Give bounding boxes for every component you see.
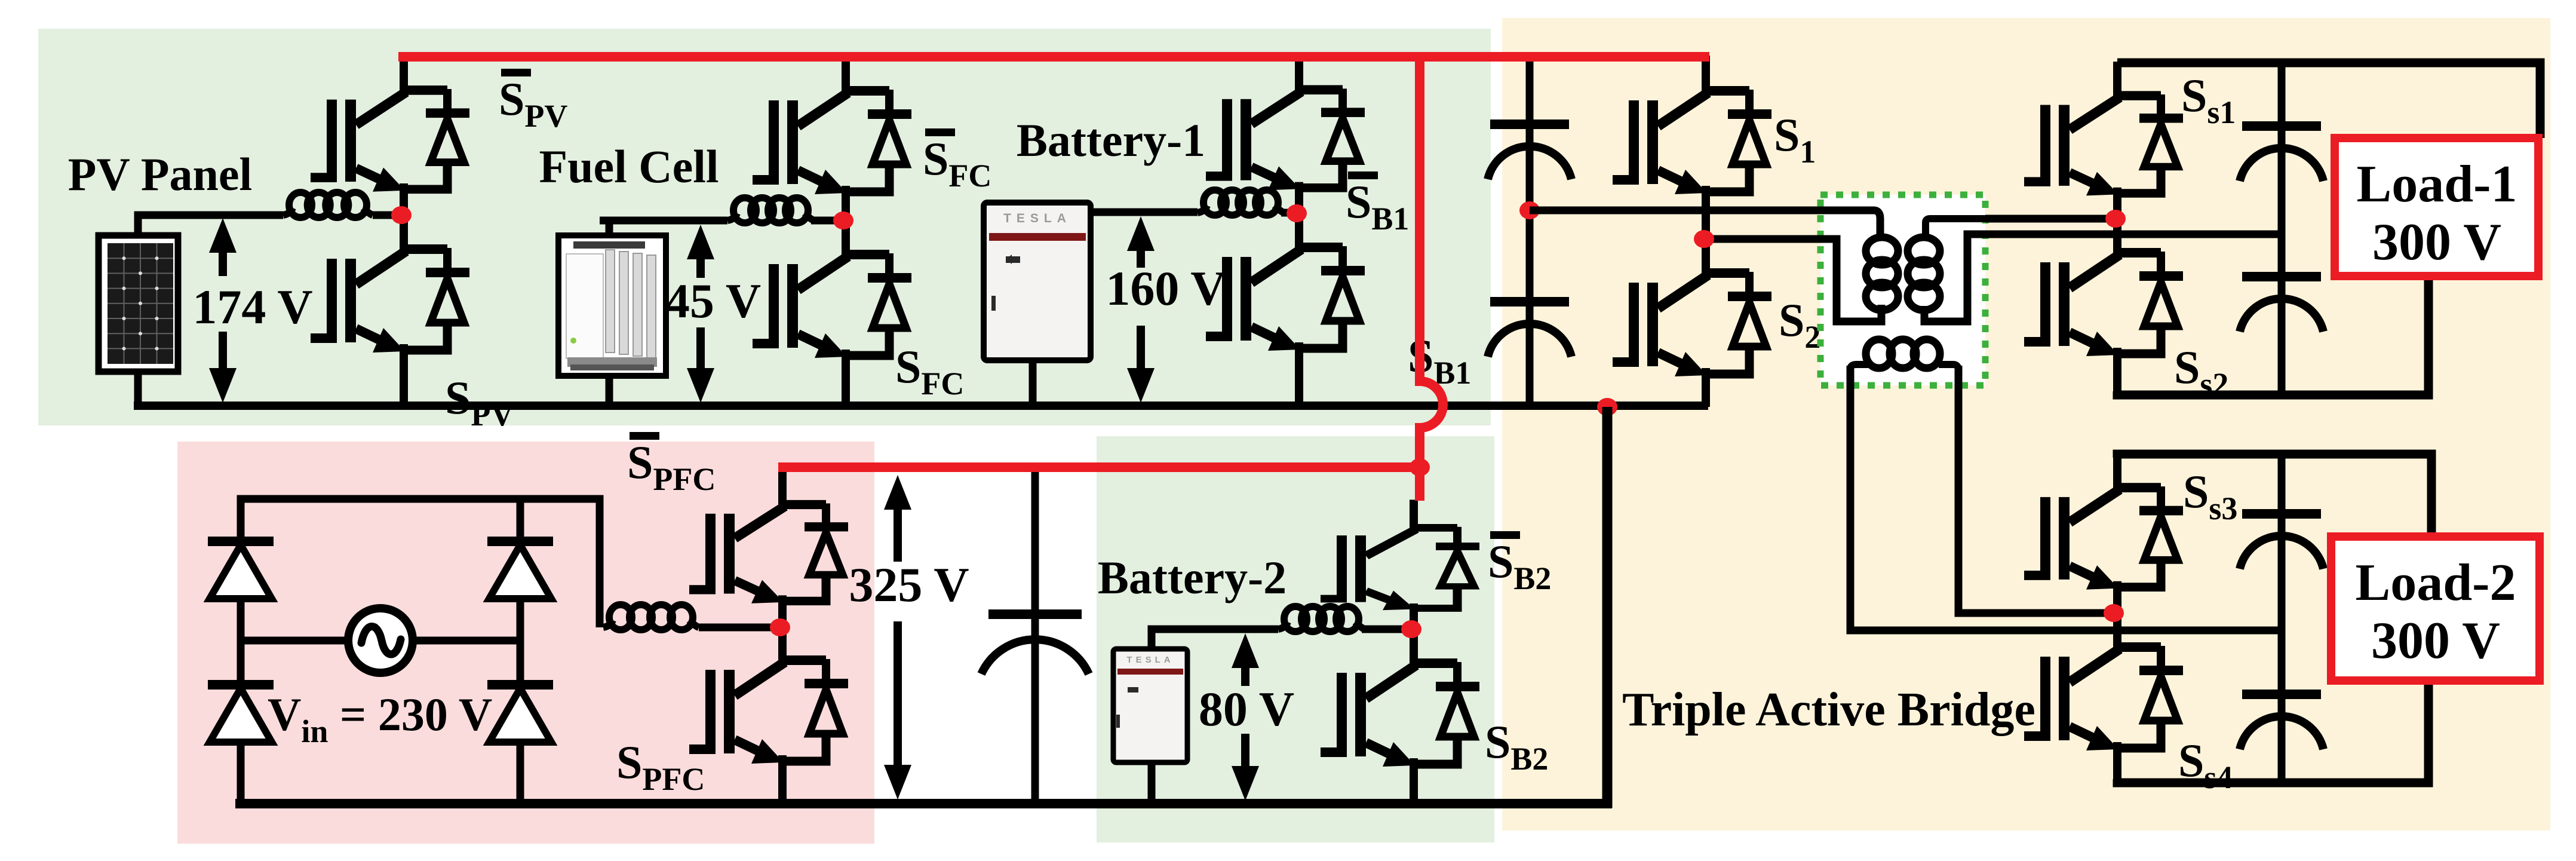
node Ss1/Ss2 midpoint (red) — [2105, 210, 2126, 228]
inductor L_PFC — [603, 605, 699, 630]
arrow 160 V down — [1127, 326, 1155, 403]
wire tertiary right lead down — [1958, 366, 2114, 613]
wire Load-2 top rail — [2117, 454, 2431, 537]
node Ss3/Ss4 midpoint (red) — [2104, 604, 2124, 622]
wire TAB negative rail drop — [1602, 407, 1613, 808]
wire battery-2 bottom lead — [1148, 760, 1156, 804]
label S&#818;FC — [923, 128, 991, 194]
wire bottom rail of lower section — [235, 799, 1612, 808]
arrow 174 V down — [209, 332, 237, 403]
svg-text:Battery-2: Battery-2 — [1098, 551, 1287, 603]
wire PV panel bottom lead — [134, 369, 142, 406]
wire secondary bottom lead to Load-1 cap midpoint — [1985, 231, 2282, 238]
node FC (red) — [833, 212, 853, 229]
node S1/S2 midpoint (red) — [1694, 230, 1714, 248]
wire red bus lower horizontal — [778, 462, 1420, 472]
diode D4 (bridge lower-right) — [487, 680, 553, 742]
arrow 45 V down — [687, 327, 714, 403]
background bottom-left pink PFC region — [177, 442, 874, 844]
arrow 160 V up — [1127, 216, 1155, 268]
arrow 80 V up — [1232, 633, 1259, 686]
svg-text:80 V: 80 V — [1199, 682, 1294, 736]
label 174 V — [192, 280, 312, 334]
transistor SB1 (lower, battery-1 leg) — [1206, 212, 1365, 407]
transistor S&#818;FC (upper, fuel-cell leg) — [753, 56, 911, 222]
label S&#818;B1 — [1346, 171, 1409, 237]
transistor S&#818;PFC (upper) — [689, 471, 848, 627]
transistor SPV (lower, PV leg) — [311, 214, 469, 407]
arrow 325 V down — [884, 621, 911, 799]
capacitor C_bus — [981, 609, 1089, 674]
label V_in = 230 V — [268, 688, 492, 749]
transistor Ss3 (upper) — [2024, 453, 2183, 614]
label Battery-1 — [1017, 114, 1205, 166]
label SB2 — [1485, 716, 1548, 777]
transistor SFC (lower, fuel-cell leg) — [753, 219, 911, 407]
wire bottom rail of top section — [134, 402, 1708, 410]
capacitor C4 (Load-1 lower) — [2240, 272, 2323, 332]
transistor S&#818;B1 (upper, battery-1 leg) — [1206, 56, 1365, 215]
label Ss1 — [2181, 69, 2236, 130]
label S1 — [1774, 109, 1816, 170]
node TAB negative rail junction (red) — [1597, 398, 1617, 416]
wire primary winding lead B (S1/S2 node to transformer) — [1704, 239, 1881, 321]
diode D3 (bridge lower-left) — [208, 680, 274, 742]
wire battery-1 bottom lead — [1029, 359, 1037, 406]
transistor Ss1 (upper) — [2024, 62, 2183, 220]
capacitor C1 (TAB upper) — [1488, 120, 1571, 179]
label S&#818;B2 — [1488, 531, 1551, 596]
diode D1 (bridge upper-left) — [208, 537, 274, 599]
node PV (red) — [391, 206, 412, 224]
wire fuel cell top lead — [600, 220, 727, 238]
capacitor C5 (Load-2 upper) — [2240, 509, 2323, 569]
label S&#818;PFC — [627, 432, 716, 497]
wire PFC bridge left leg lower — [237, 641, 245, 804]
battery-2 Tesla Powerwall image — [1113, 649, 1187, 762]
transformer tertiary winding (bottom coil) — [1850, 339, 1958, 387]
transistor S2 (lower, TAB primary leg) — [1613, 238, 1771, 407]
transistor SB2 (lower) — [1321, 628, 1479, 805]
wire TAB capacitor leg — [1526, 57, 1534, 406]
transformer primary winding (left coil) — [1866, 237, 1898, 310]
wire Load-1 bottom rail — [2117, 276, 2428, 395]
wire Load-2 bottom rail — [2117, 681, 2428, 783]
node red bus junction (red) — [1410, 458, 1430, 476]
node PFC (red) — [770, 618, 790, 636]
inductor L_PV — [283, 192, 373, 217]
svg-text:Load-2: Load-2 — [2356, 554, 2516, 612]
capacitor C6 (Load-2 lower) — [2240, 690, 2323, 749]
label SB1 — [1408, 330, 1471, 391]
label PV Panel — [68, 148, 252, 200]
svg-text:TESLA: TESLA — [1003, 212, 1071, 225]
wire L_PFC to node — [699, 624, 774, 632]
label S2 — [1779, 294, 1820, 355]
svg-text:300 V: 300 V — [2372, 213, 2501, 271]
label 45 V — [665, 274, 761, 328]
label 325 V — [849, 557, 969, 612]
wire red positive bus (top rail) — [398, 52, 1709, 62]
wire primary winding lead A (cap midpoint to transformer) — [1530, 210, 1880, 238]
node TAB capacitor midpoint (red) — [1519, 201, 1540, 219]
wire battery-1 top lead — [1091, 209, 1198, 216]
transistor Ss2 (lower) — [2024, 217, 2183, 396]
background right cream Triple-Active-Bridge region — [1502, 18, 2550, 831]
capacitor C2 (TAB lower) — [1488, 297, 1571, 357]
svg-text:325 V: 325 V — [849, 557, 969, 612]
wire AC source row — [241, 637, 520, 645]
wire DC bus capacitor leg — [1031, 469, 1039, 804]
svg-text:Triple Active Bridge: Triple Active Bridge — [1622, 684, 2035, 736]
svg-text:Load-1: Load-1 — [2357, 155, 2517, 213]
Load-1 300 V box — [2335, 138, 2538, 276]
label Battery-2 — [1098, 551, 1287, 603]
AC source V_in — [348, 608, 413, 673]
label SPV — [445, 372, 514, 433]
wire Load-1 top rail — [2117, 63, 2540, 138]
svg-text:Fuel Cell: Fuel Cell — [539, 140, 719, 192]
svg-text:174 V: 174 V — [192, 280, 312, 334]
transistor Ss4 (lower) — [2024, 612, 2183, 784]
inductor L_B1 — [1198, 190, 1284, 215]
node B1 (red) — [1287, 204, 1307, 222]
arrow 174 V up — [209, 218, 237, 276]
inductor L_FC — [727, 198, 814, 223]
Load-2 300 V box — [2331, 537, 2540, 681]
background Battery-2 green region — [1097, 436, 1494, 842]
wire PFC bridge right leg — [517, 499, 524, 804]
wire Load-1 capacitor leg — [2278, 63, 2286, 395]
svg-text:Battery-1: Battery-1 — [1017, 114, 1205, 166]
wire Load-2 capacitor leg — [2278, 454, 2286, 783]
label S&#818;PV — [499, 69, 567, 134]
diode D2 (bridge upper-right) — [487, 537, 553, 599]
background top-left green converter region — [38, 29, 1491, 425]
transformer secondary winding (right coil) — [1908, 219, 1989, 321]
capacitor C3 (Load-1 upper) — [2240, 121, 2323, 181]
label SFC — [895, 341, 964, 402]
transistor S&#818;B2 (upper) — [1321, 500, 1479, 630]
wire tertiary left lead down — [1850, 366, 2282, 630]
transistor SPFC (lower) — [689, 625, 848, 805]
wire battery-2 top lead — [1152, 629, 1278, 651]
label Ss3 — [2183, 465, 2237, 526]
arrow 80 V down — [1232, 734, 1259, 801]
wire red bus vertical drop with hop — [1420, 57, 1443, 501]
svg-text:45 V: 45 V — [665, 274, 761, 328]
node B2 (red) — [1401, 620, 1421, 638]
transistor S1 (upper, TAB primary leg) — [1613, 56, 1771, 240]
fuel cell image — [558, 235, 666, 376]
arrow 45 V up — [687, 225, 714, 278]
label Ss4 — [2178, 734, 2233, 795]
wire PFC bridge top rail — [241, 499, 600, 641]
transistor S&#818;PV (upper, PV leg) — [311, 56, 469, 216]
wire secondary top lead to Ss node — [1985, 215, 2116, 223]
wire fuel cell bottom lead — [606, 373, 613, 406]
label SPFC — [616, 736, 705, 797]
svg-text:300 V: 300 V — [2371, 612, 2500, 670]
label 80 V — [1199, 682, 1294, 736]
arrow 325 V up — [884, 475, 911, 562]
PV panel image — [99, 235, 178, 372]
inductor L_B2 — [1278, 606, 1365, 632]
svg-text:TESLA: TESLA — [1126, 655, 1174, 665]
wire L_FC to node — [811, 217, 839, 225]
svg-text:160 V: 160 V — [1106, 261, 1226, 315]
battery-1 Tesla Powerwall image — [984, 203, 1091, 360]
wire L_B1 to node — [1281, 209, 1291, 217]
label Triple Active Bridge — [1622, 684, 2035, 736]
wire PV panel top lead — [138, 215, 283, 238]
svg-text:PV Panel: PV Panel — [68, 148, 252, 200]
label Fuel Cell — [539, 140, 719, 192]
transformer dotted enclosure — [1820, 195, 1985, 385]
label 160 V — [1106, 261, 1226, 315]
wire L_PV to node — [373, 212, 399, 219]
wire L_B2 to node — [1362, 626, 1405, 633]
label Ss2 — [2174, 341, 2228, 402]
